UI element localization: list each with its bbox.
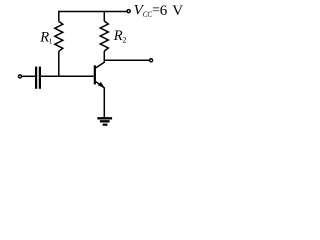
- svg-text:2: 2: [123, 36, 127, 45]
- svg-text:6: 6: [160, 3, 168, 19]
- svg-text:=: =: [152, 2, 160, 17]
- svg-text:V: V: [172, 3, 183, 19]
- svg-text:CC: CC: [143, 9, 153, 19]
- svg-text:R: R: [113, 28, 123, 44]
- svg-text:1: 1: [49, 37, 53, 46]
